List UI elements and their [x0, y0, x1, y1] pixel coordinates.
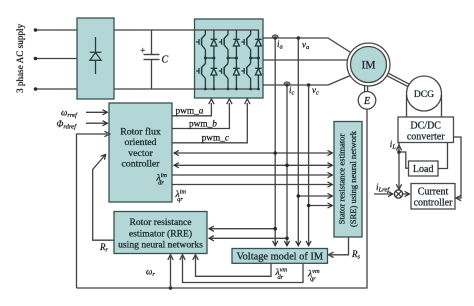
- svg-text:Stator resistance estimator: Stator resistance estimator: [337, 134, 347, 225]
- transistor Q6 (IGBT leg3 bottom): [241, 58, 250, 89]
- node: leg3 phase junction: [249, 57, 252, 60]
- svg-text:E: E: [363, 96, 370, 107]
- wire: iLref input: [374, 193, 393, 195]
- value label: lambda_qr_im: [175, 188, 187, 203]
- summing junction (iLref - iL): [394, 190, 402, 198]
- estimator RRE block: [114, 212, 207, 254]
- wire: va branch to SRE: [298, 195, 332, 197]
- node: vc branch junction: [307, 204, 311, 208]
- diode D2 (leg1 top antiparallel): [211, 30, 218, 58]
- node: supply phase C terminal: [34, 87, 38, 91]
- wire: DC bus positive rail: [114, 29, 259, 31]
- wire: iL sense line: [398, 143, 400, 190]
- wire: Rs from SRE to voltage model: [330, 237, 348, 255]
- node: ia junction: [273, 151, 277, 155]
- node: supply phase B terminal: [34, 57, 38, 61]
- svg-text:converter: converter: [407, 132, 445, 143]
- node: 3-phase AC supply label: [15, 23, 25, 93]
- value label: va: [302, 40, 309, 52]
- wire: lambda_qr_vm output: [183, 256, 304, 282]
- wire: pwm_b gate signal: [172, 103, 229, 129]
- controller: rotor flux oriented vector controller: [109, 103, 172, 202]
- value label: ic: [289, 85, 295, 97]
- wire: rotor speed feedback to controller: [77, 134, 108, 288]
- value label: Rs: [351, 249, 361, 261]
- wire: lambda_dr_vm output: [196, 256, 272, 276]
- wire: supply phase B: [35, 58, 77, 60]
- encoder E: [358, 92, 376, 110]
- shaft: IM to encoder E: [364, 86, 366, 92]
- svg-text:estimator (RRE): estimator (RRE): [129, 228, 192, 239]
- wire: Rr feedback from RRE to controller: [93, 169, 114, 240]
- transistor Q1 (IGBT leg1 top): [196, 30, 205, 58]
- rectifier block: [77, 18, 114, 99]
- wire: supply phase C: [35, 88, 77, 90]
- current controller block: [411, 184, 455, 210]
- load block: [409, 161, 439, 176]
- svg-text:Load: Load: [413, 164, 434, 175]
- node: va branch junction: [297, 194, 301, 198]
- value label: omega rref: [61, 108, 78, 120]
- svg-text:pwm_a: pwm_a: [176, 107, 204, 117]
- node: inverter bottom rail junctions: [204, 88, 260, 91]
- wire: leg2 midpoint: [228, 57, 236, 59]
- value label: iL with up arrow: [396, 145, 401, 150]
- wire: ia feedback bus (controller and SRE): [174, 152, 332, 154]
- wire: va measurement drop: [297, 38, 299, 246]
- diode D7 (leg3 bottom antiparallel): [255, 58, 262, 89]
- wire: leg3 midpoint: [251, 57, 259, 59]
- transistor Q3 (IGBT leg3 top): [241, 30, 250, 58]
- wire: Load to DC/DC right return: [438, 143, 448, 169]
- wire: phase b output: [263, 59, 348, 61]
- value label: lambda_dr_vm: [275, 266, 288, 281]
- value label: lambda_dr_im: [156, 172, 168, 187]
- node: leg2 phase junction: [227, 57, 230, 60]
- node: ic to RRE junction: [285, 237, 289, 241]
- svg-text:+: +: [140, 45, 145, 55]
- wire: supply phase A: [35, 29, 77, 31]
- wire: leg1 midpoint: [205, 57, 214, 59]
- value label: pwm_a: [176, 107, 204, 117]
- value label: pwm_b: [189, 119, 217, 129]
- shaft: IM to DCG: [387, 76, 408, 87]
- wire: DC bus negative rail: [114, 88, 259, 90]
- estimator SRE block: [334, 122, 362, 238]
- svg-text:(SRE) using neural network: (SRE) using neural network: [348, 130, 358, 227]
- wire: branch to Load: [399, 152, 409, 168]
- DC/DC converter block: [398, 117, 454, 143]
- current sensor ic: [284, 82, 290, 85]
- wire: current controller to DC/DC feedback loop: [454, 137, 462, 198]
- value label: Rr: [99, 242, 109, 254]
- svg-text:Voltage model of IM: Voltage model of IM: [236, 252, 323, 263]
- generator DCG: [407, 76, 442, 111]
- value label: ia: [277, 39, 283, 51]
- wire: pwm_a gate signal: [172, 103, 211, 116]
- node: iL junction: [397, 150, 401, 154]
- wire: ic feedback bus (controller and SRE): [174, 164, 332, 166]
- value label: Phi rdref: [57, 119, 78, 131]
- wire: ia measurement drop: [274, 38, 276, 246]
- node: leg1 phase junction: [204, 57, 207, 60]
- transistor Q2 (IGBT leg2 top): [219, 30, 228, 58]
- svg-text:IM: IM: [361, 60, 375, 72]
- svg-text:using neural networks: using neural networks: [118, 240, 203, 251]
- svg-text:DC/DC: DC/DC: [410, 120, 441, 131]
- wire: arrow into summing junction: [396, 184, 401, 189]
- svg-text:controller: controller: [414, 198, 454, 209]
- node: ic junction: [285, 164, 289, 168]
- value label: + polarity of C: [140, 45, 145, 55]
- transistor Q4 (IGBT leg1 bottom): [196, 58, 205, 89]
- node: omega_r junction: [169, 286, 173, 290]
- svg-text:3 phase AC supply: 3 phase AC supply: [15, 23, 25, 93]
- inverter block: [195, 19, 264, 98]
- value label: lambda_qr_vm: [307, 268, 320, 283]
- wire: phase c output: [263, 76, 351, 86]
- wire: DCG left terminal: [406, 95, 408, 117]
- wire: vc measurement drop: [308, 85, 310, 246]
- diode D5 (leg1 bottom antiparallel): [211, 58, 218, 89]
- motor IM: [347, 43, 390, 86]
- value label: iLref: [376, 182, 390, 194]
- svg-text:oriented: oriented: [124, 137, 156, 148]
- wire: flux reference input: [86, 122, 107, 124]
- node: supply phase A terminal: [34, 28, 38, 32]
- wire: vc branch to SRE: [309, 205, 333, 207]
- svg-text:pwm_b: pwm_b: [189, 119, 217, 129]
- diode D4 (leg3 top antiparallel): [255, 30, 262, 58]
- diode D6 (leg2 bottom antiparallel): [233, 58, 240, 89]
- wire: summing junction to current controller: [403, 193, 410, 195]
- wire: pwm_c gate signal: [172, 103, 247, 143]
- svg-text:controller: controller: [121, 158, 160, 169]
- value label: vc: [312, 85, 319, 97]
- svg-text:vector: vector: [128, 148, 153, 159]
- svg-text:Rotor flux: Rotor flux: [120, 127, 161, 138]
- wire: ic input to RRE: [209, 237, 287, 239]
- svg-text:Current: Current: [418, 186, 449, 197]
- node: va tap: [297, 36, 301, 40]
- wire: speed reference input: [86, 111, 107, 113]
- wire: ia input to RRE: [209, 228, 275, 230]
- node: vc tap: [307, 83, 311, 87]
- svg-text:DCG: DCG: [414, 89, 434, 100]
- svg-text:Rotor resistance: Rotor resistance: [129, 217, 191, 228]
- wire: omega_r to RRE: [170, 256, 172, 288]
- wire: phase a output: [263, 38, 352, 53]
- value label: pwm_c: [202, 134, 230, 144]
- svg-text:pwm_c: pwm_c: [202, 134, 230, 144]
- value label: omega_r: [146, 267, 155, 279]
- transistor Q5 (IGBT leg2 bottom): [219, 58, 228, 89]
- diode D3 (leg2 top antiparallel): [233, 30, 240, 58]
- diode D1 (rectifier symbol): [90, 37, 101, 74]
- current sensor ia: [272, 35, 278, 38]
- wire: lambda_qr_im to SRE: [172, 184, 332, 186]
- svg-text:C: C: [162, 55, 169, 66]
- capacitor C: [151, 30, 153, 55]
- wire: DCG right terminal: [441, 95, 443, 117]
- wire: lambda_dr_im to SRE: [172, 174, 332, 176]
- wire: ic measurement drop: [286, 85, 288, 246]
- node: ia to RRE junction: [273, 227, 277, 231]
- wire: rotor speed rail from encoder: [77, 109, 368, 288]
- voltage model block: [232, 249, 328, 264]
- value label: C: [162, 55, 169, 66]
